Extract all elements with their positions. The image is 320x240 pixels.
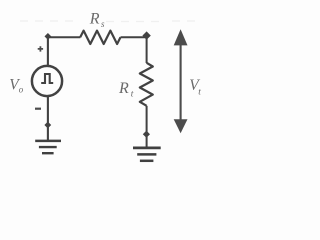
wire top horizontal left [48, 36, 81, 38]
svg-text:s: s [101, 19, 105, 29]
node junction B [142, 31, 150, 39]
voltage arrow Vt top head [174, 29, 188, 45]
wire source top [47, 37, 49, 67]
node junction A [45, 33, 52, 40]
wire right vertical bottom [146, 106, 148, 147]
ground left [35, 141, 61, 153]
svg-text:t: t [131, 90, 134, 100]
svg-text:t: t [198, 88, 201, 98]
svg-text:R: R [89, 10, 100, 27]
wire source bottom [47, 96, 49, 141]
ground right [133, 148, 161, 161]
voltage arrow Vt bottom head [174, 119, 188, 133]
resistor Rs [80, 31, 120, 44]
voltage arrow Vt shaft [180, 43, 182, 121]
resistor Rt [140, 63, 153, 106]
wire top horizontal right [121, 36, 147, 38]
svg-text:R: R [118, 80, 129, 97]
pulse waveform symbol [41, 74, 53, 83]
faint artifact line [20, 20, 201, 23]
svg-text:o: o [19, 85, 24, 95]
minus sign [35, 108, 41, 110]
plus sign [38, 46, 43, 51]
wire right vertical top [146, 37, 148, 63]
node dot on left wire [44, 122, 51, 129]
voltage source U1 circle [32, 66, 62, 96]
node dot on right wire [143, 131, 150, 138]
